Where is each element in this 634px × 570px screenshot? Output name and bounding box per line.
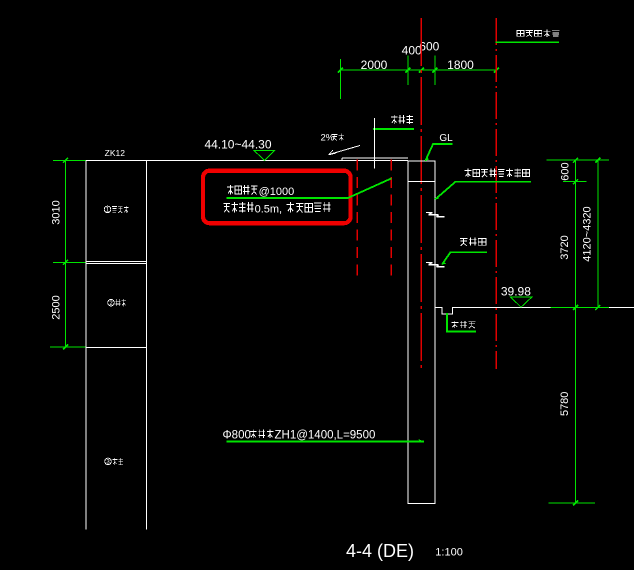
svg-text:ZH1@1400,L=9500: ZH1@1400,L=9500 <box>275 430 376 442</box>
pipe break symbol 1 <box>426 212 445 216</box>
leader underline 防护栏 <box>373 128 414 130</box>
left dim slashes <box>63 158 68 350</box>
red dash-dot line: outer wall line <box>495 18 497 369</box>
elevation triangle <box>254 151 274 161</box>
layer divider 1 (double line) <box>86 261 147 263</box>
svg-text:2000: 2000 <box>361 58 388 72</box>
svg-text:2500: 2500 <box>50 295 62 319</box>
red dashed grout line right <box>390 160 392 279</box>
svg-text:39.98: 39.98 <box>501 284 531 298</box>
guard rail post <box>374 118 376 169</box>
svg-text:3: 3 <box>106 460 110 466</box>
svg-text:44.10~44.30: 44.10~44.30 <box>204 137 271 151</box>
label 排水沟 <box>451 321 475 328</box>
label 桩间采用砖砌挡墙 <box>465 169 530 178</box>
tick at 347 <box>50 346 86 348</box>
svg-text:3010: 3010 <box>50 200 62 224</box>
layer divider 2 <box>86 347 147 349</box>
soil label 3 <box>105 458 124 466</box>
red centerline of pile (dash-dot) <box>420 18 422 369</box>
left dimension line vertical <box>65 160 67 347</box>
leader 桩间采用砖砌挡墙 <box>435 182 531 200</box>
label 外墙外边线 <box>517 30 559 37</box>
arrowhead 进水管 leader <box>442 261 446 264</box>
GL leader <box>425 144 452 161</box>
borehole column <box>86 161 147 530</box>
soil label 1 <box>104 206 128 214</box>
svg-text:ZK12: ZK12 <box>105 148 126 158</box>
right dim slashes <box>573 158 600 506</box>
top dimension line (2000/400/600/1800) <box>341 56 497 99</box>
GL leader arrowhead <box>425 157 429 161</box>
svg-text:600: 600 <box>560 162 572 180</box>
svg-text:GL: GL <box>439 133 453 144</box>
extension line left end <box>340 59 342 99</box>
svg-text:2: 2 <box>109 301 113 307</box>
svg-text:5780: 5780 <box>559 392 571 416</box>
svg-text:4-4 (DE): 4-4 (DE) <box>346 541 414 561</box>
pile outline <box>408 161 435 503</box>
svg-text:3720: 3720 <box>559 235 571 259</box>
leader line of grouting label <box>227 178 392 198</box>
label 进水管 <box>460 237 486 245</box>
svg-text:1: 1 <box>106 208 110 214</box>
svg-text:@1000: @1000 <box>259 186 295 198</box>
svg-text:600: 600 <box>419 40 439 54</box>
leader 进水管 <box>442 252 487 264</box>
dimension tick slashes <box>338 68 499 73</box>
red highlight box <box>203 171 351 224</box>
svg-text:4120~4320: 4120~4320 <box>582 206 594 261</box>
right overall dimension vertical 4120~4320 <box>597 160 599 307</box>
ground line right of pile with drain notch <box>435 307 634 314</box>
soil label 2 <box>108 299 127 307</box>
svg-text:1:100: 1:100 <box>435 547 463 559</box>
pipe break symbol 2 <box>426 262 445 266</box>
crown beam bottom line (GL) <box>408 180 435 182</box>
tick at 262.3 <box>53 261 86 263</box>
label 压密注浆@1000 <box>227 185 257 195</box>
leader line for 外墙外边线 <box>496 41 559 43</box>
svg-text:1800: 1800 <box>447 58 474 72</box>
right dim ticks <box>547 160 609 503</box>
elevation triangle 39.98 <box>511 297 532 307</box>
extension line at 435 <box>434 56 436 86</box>
svg-text:2%: 2% <box>321 132 335 143</box>
tick at 160.3 <box>53 159 86 161</box>
extension line at 408 <box>407 56 409 86</box>
arrowhead 桩间 leader <box>435 196 439 199</box>
upper berm line (2% slope) <box>342 158 408 161</box>
red dashed grout line left <box>356 160 358 279</box>
white leader arrow for 2%反坡 <box>329 146 361 155</box>
right dimension vertical 600/3720/5780 <box>575 160 577 503</box>
label 进入老土0.5m 梅花形布置 <box>223 202 253 212</box>
svg-text:0.5m,: 0.5m, <box>255 204 283 216</box>
pile label leader with arrow <box>226 440 423 442</box>
leader 排水沟 <box>447 313 476 332</box>
ground line left of pile <box>86 160 408 162</box>
svg-text:Φ800: Φ800 <box>223 430 251 442</box>
label 防护栏 <box>391 115 413 124</box>
